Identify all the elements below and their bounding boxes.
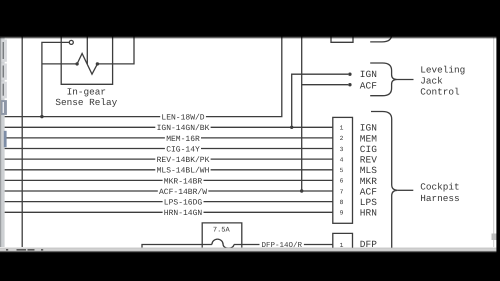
svg-text:MLS-14BL/WH: MLS-14BL/WH: [157, 167, 210, 176]
junction ACF riser: [300, 189, 303, 192]
svg-text:Jack: Jack: [420, 76, 443, 87]
letterbox right: [496, 0, 500, 281]
svg-text:Leveling: Leveling: [420, 65, 465, 76]
wire fuse to label: [234, 244, 260, 246]
fuse F1 element: [212, 239, 234, 248]
wire IGN row: [5, 126, 333, 128]
brace cockpit harness: [371, 112, 398, 251]
wire DFP start stub: [142, 245, 212, 248]
connector DFP box: [333, 233, 353, 248]
letterbox bottom: [0, 252, 500, 281]
svg-text:CIG-14Y: CIG-14Y: [166, 145, 200, 154]
svg-text:6: 6: [340, 178, 344, 185]
wire CIG row: [5, 148, 333, 150]
connector J1 cockpit box: [333, 117, 353, 223]
svg-text:HRN: HRN: [360, 208, 377, 219]
status bar: [0, 248, 496, 252]
white gaps behind wire labels: [155, 113, 302, 248]
wire MLS row: [5, 169, 333, 171]
pin numbers: [340, 125, 344, 249]
terminal dot IGN label: [348, 73, 351, 76]
svg-text:REV-14BK/PK: REV-14BK/PK: [157, 156, 210, 165]
svg-text:IGN: IGN: [360, 69, 377, 80]
sidebar scroll thumb blue: [4, 131, 7, 147]
wire label to DFP connector: [304, 244, 333, 246]
relay terminal circle: [69, 40, 73, 44]
junction IGN riser: [290, 126, 293, 129]
sidebar strip: [0, 37, 5, 247]
svg-text:1: 1: [340, 125, 344, 132]
zigzag contact element: [77, 54, 97, 75]
svg-text:LEN-18W/D: LEN-18W/D: [161, 114, 204, 123]
wire IGN riser to leveling jack: [292, 74, 349, 127]
brace upper fragment: [370, 34, 392, 42]
sidebar edge: [0, 37, 1, 247]
wire LPS row: [5, 201, 333, 203]
wire ACF stub to label: [302, 84, 349, 86]
svg-text:REV: REV: [360, 155, 377, 166]
svg-text:IGN-14GN/BK: IGN-14GN/BK: [157, 124, 210, 133]
letterbox top: [0, 0, 500, 37]
sidebar tab 3: [0, 82, 7, 99]
lead line cockpit: [398, 189, 414, 191]
svg-text:2: 2: [340, 135, 344, 142]
svg-text:ACF: ACF: [360, 186, 377, 197]
connector fragment top right: [331, 35, 353, 42]
svg-text:MLS: MLS: [360, 165, 377, 176]
wire ACF riser top to pin7: [301, 36, 303, 191]
sidebar tab 1: [0, 40, 7, 62]
relay box: [61, 36, 112, 84]
wire MEM row: [5, 137, 333, 139]
lead line leveling: [397, 79, 414, 81]
terminal dot ACF label: [348, 83, 351, 86]
svg-text:MKR-14BR: MKR-14BR: [164, 177, 203, 186]
svg-text:MEM-16R: MEM-16R: [166, 135, 200, 144]
svg-text:7.5A: 7.5A: [213, 227, 231, 235]
harness captions: [420, 65, 465, 205]
svg-text:Control: Control: [420, 87, 460, 98]
svg-text:9: 9: [340, 210, 344, 217]
svg-text:Harness: Harness: [420, 193, 459, 204]
svg-text:3: 3: [340, 146, 344, 153]
svg-text:ACF: ACF: [360, 80, 377, 91]
brace leveling jack: [370, 63, 397, 96]
relay middle pin wire: [86, 36, 88, 64]
svg-text:MKR: MKR: [360, 176, 377, 187]
svg-text:5: 5: [340, 167, 344, 174]
wire left frame vertical: [21, 36, 23, 247]
wire LEN-18W/D row: [5, 36, 282, 117]
svg-text:Sense Relay: Sense Relay: [55, 97, 117, 108]
sidebar tab 2: [0, 64, 7, 80]
svg-text:CIG: CIG: [360, 144, 377, 155]
scrollbar thumb right: [492, 234, 497, 241]
svg-text:Cockpit: Cockpit: [420, 182, 459, 193]
wire circle to left corner: [42, 42, 69, 116]
texts: [157, 114, 210, 219]
relay caption: [55, 87, 117, 108]
svg-text:LPS-16DG: LPS-16DG: [164, 199, 203, 208]
svg-text:IGN: IGN: [360, 123, 377, 134]
svg-text:7: 7: [340, 188, 344, 195]
fuse F1 box: [202, 223, 242, 248]
wire REV row: [5, 158, 333, 160]
scrollbar track line right: [493, 37, 495, 247]
wire zigzag right to riser: [97, 36, 134, 64]
junction zigzag right: [96, 62, 99, 65]
svg-text:MEM: MEM: [360, 133, 377, 144]
status tiny text: [6, 249, 43, 251]
wire to zigzag left: [42, 63, 77, 65]
junction LEN: [40, 115, 43, 118]
wire HRN row: [5, 211, 333, 213]
junction zigzag left: [75, 62, 78, 65]
sidebar tab 4 active pages: [0, 100, 7, 115]
svg-text:ACF-14BR/W: ACF-14BR/W: [159, 188, 207, 197]
wire MKR row: [5, 179, 333, 181]
pin name labels: [360, 69, 377, 250]
svg-text:4: 4: [340, 156, 344, 163]
svg-text:LPS: LPS: [360, 197, 377, 208]
svg-text:HRN-14GN: HRN-14GN: [164, 209, 203, 218]
svg-text:8: 8: [340, 199, 344, 206]
wire ACF row: [5, 190, 333, 192]
